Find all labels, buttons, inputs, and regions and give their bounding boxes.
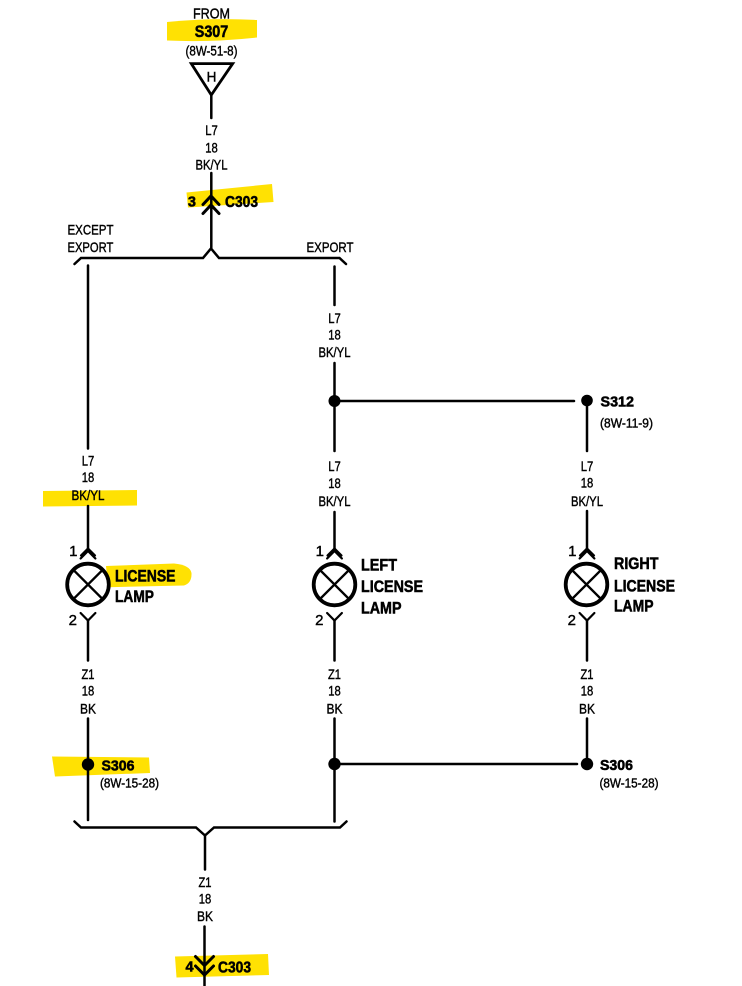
svg-text:BK: BK [197,908,214,924]
svg-text:S312: S312 [601,394,635,411]
svg-text:18: 18 [82,683,95,699]
svg-text:1: 1 [316,543,324,560]
svg-text:18: 18 [328,475,341,491]
svg-text:EXPORT: EXPORT [307,239,354,255]
svg-text:18: 18 [199,891,212,907]
svg-text:L7: L7 [328,310,341,326]
svg-text:LAMP: LAMP [614,597,654,616]
svg-text:L7: L7 [581,458,594,474]
svg-text:S306: S306 [102,758,135,775]
svg-text:BK/YL: BK/YL [196,157,228,173]
svg-text:18: 18 [82,469,95,485]
svg-text:2: 2 [69,612,77,629]
svg-text:C303: C303 [218,960,251,977]
svg-text:LEFT: LEFT [361,556,398,575]
svg-text:C303: C303 [225,194,258,211]
svg-text:LICENSE: LICENSE [115,567,176,586]
svg-text:Z1: Z1 [581,666,594,682]
svg-text:Z1: Z1 [82,666,95,682]
svg-text:1: 1 [568,543,576,560]
svg-text:(8W-15-28): (8W-15-28) [600,776,659,791]
svg-text:(8W-51-8): (8W-51-8) [186,43,238,59]
svg-text:BK: BK [80,701,97,717]
svg-text:Z1: Z1 [199,874,212,890]
svg-text:BK/YL: BK/YL [571,493,603,509]
svg-text:(8W-15-28): (8W-15-28) [100,776,159,791]
svg-text:LAMP: LAMP [115,587,154,606]
svg-text:EXPORT: EXPORT [68,239,114,255]
svg-text:FROM: FROM [193,6,230,23]
svg-text:L7: L7 [205,122,218,138]
svg-text:LICENSE: LICENSE [361,577,423,596]
svg-text:S307: S307 [195,22,229,41]
svg-text:BK/YL: BK/YL [72,487,105,503]
svg-text:H: H [207,70,217,85]
svg-text:3: 3 [188,195,196,211]
svg-text:LICENSE: LICENSE [614,577,675,596]
svg-text:EXCEPT: EXCEPT [68,222,114,238]
svg-text:18: 18 [328,683,341,699]
svg-text:18: 18 [205,140,218,156]
svg-text:L7: L7 [328,458,341,474]
svg-text:18: 18 [581,475,594,491]
svg-text:BK/YL: BK/YL [319,344,351,360]
svg-text:BK: BK [327,701,344,717]
svg-text:(8W-11-9): (8W-11-9) [600,416,653,431]
svg-text:2: 2 [315,612,323,629]
svg-text:18: 18 [328,327,341,343]
svg-text:18: 18 [581,683,594,699]
svg-text:L7: L7 [82,453,95,469]
svg-text:2: 2 [568,612,576,629]
svg-text:Z1: Z1 [328,666,341,682]
svg-text:S306: S306 [600,757,633,774]
svg-text:BK/YL: BK/YL [319,493,351,509]
svg-text:RIGHT: RIGHT [614,554,659,573]
svg-text:1: 1 [69,543,77,560]
svg-text:4: 4 [185,960,193,976]
svg-text:LAMP: LAMP [361,599,402,618]
svg-text:BK: BK [579,701,596,717]
